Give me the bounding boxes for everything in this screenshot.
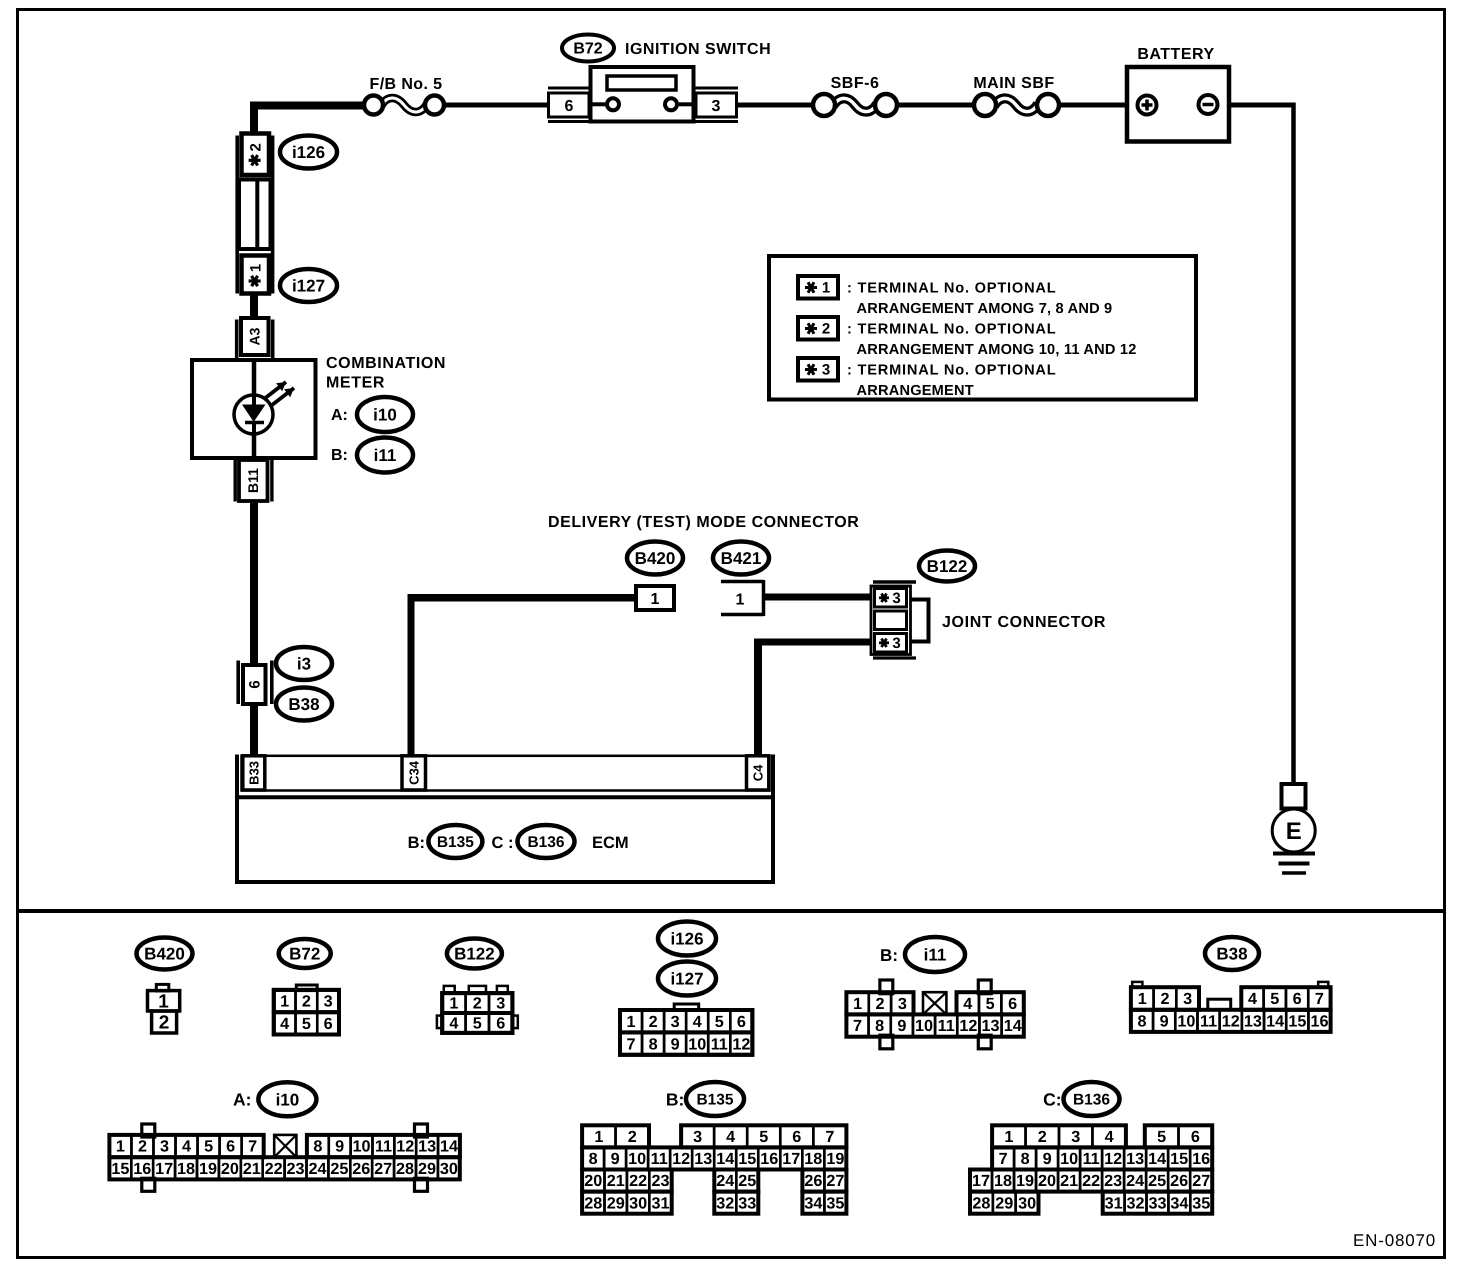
svg-text:17: 17 [155, 1160, 173, 1178]
svg-text:1: 1 [736, 592, 745, 609]
svg-text:i126: i126 [670, 929, 703, 948]
svg-text:27: 27 [1192, 1172, 1210, 1190]
svg-text:10: 10 [688, 1035, 706, 1053]
svg-text:6: 6 [1008, 995, 1017, 1013]
svg-text:EN-08070: EN-08070 [1353, 1231, 1436, 1250]
svg-text:5: 5 [473, 1015, 482, 1033]
svg-text:3: 3 [160, 1138, 169, 1156]
svg-text:3: 3 [693, 1128, 702, 1146]
svg-text:24: 24 [716, 1172, 734, 1190]
svg-text:1: 1 [1138, 990, 1147, 1008]
svg-text:4: 4 [963, 995, 972, 1013]
svg-text:15: 15 [111, 1160, 129, 1178]
svg-text:12: 12 [959, 1017, 977, 1035]
svg-text:24: 24 [1126, 1172, 1144, 1190]
svg-text:METER: METER [326, 375, 385, 392]
svg-text:20: 20 [221, 1160, 239, 1178]
svg-text:10: 10 [353, 1138, 371, 1156]
svg-text:18: 18 [994, 1172, 1012, 1190]
svg-text:6: 6 [496, 1015, 505, 1033]
svg-text:6: 6 [1293, 990, 1302, 1008]
svg-text:3: 3 [712, 98, 721, 115]
svg-text:1: 1 [449, 995, 458, 1013]
svg-text:2: 2 [1038, 1128, 1047, 1146]
svg-text:3: 3 [671, 1013, 680, 1031]
svg-text:13: 13 [694, 1150, 712, 1168]
svg-text:6: 6 [565, 98, 574, 115]
svg-text:16: 16 [1311, 1013, 1329, 1031]
svg-text:10: 10 [915, 1017, 933, 1035]
svg-text:33: 33 [1148, 1194, 1166, 1212]
svg-text:14: 14 [716, 1150, 734, 1168]
svg-text:27: 27 [826, 1172, 844, 1190]
svg-text:i11: i11 [924, 945, 947, 964]
svg-text:3: 3 [898, 995, 907, 1013]
svg-text:19: 19 [1016, 1172, 1034, 1190]
svg-text:ARRANGEMENT AMONG 10, 11 AND 1: ARRANGEMENT AMONG 10, 11 AND 12 [857, 342, 1137, 358]
svg-text:: TERMINAL No. OPTIONAL: : TERMINAL No. OPTIONAL [847, 281, 1056, 297]
svg-text:5: 5 [715, 1013, 724, 1031]
svg-text:i126: i126 [292, 143, 325, 162]
svg-text:DELIVERY (TEST) MODE CONNECTOR: DELIVERY (TEST) MODE CONNECTOR [548, 514, 859, 531]
svg-text:17: 17 [972, 1172, 990, 1190]
svg-text:5: 5 [986, 995, 995, 1013]
svg-text:7: 7 [248, 1138, 257, 1156]
svg-text:30: 30 [1018, 1194, 1036, 1212]
svg-text:8: 8 [589, 1150, 598, 1168]
svg-text:5: 5 [1157, 1128, 1166, 1146]
svg-text:4: 4 [1105, 1128, 1114, 1146]
svg-text:B135: B135 [696, 1091, 733, 1108]
svg-text:24: 24 [308, 1160, 326, 1178]
svg-text:29: 29 [607, 1194, 625, 1212]
svg-text:B136: B136 [1073, 1091, 1110, 1108]
svg-text:2: 2 [1160, 990, 1169, 1008]
svg-text:30: 30 [629, 1194, 647, 1212]
svg-text:B38: B38 [288, 695, 319, 714]
svg-text:8: 8 [1021, 1150, 1030, 1168]
svg-text:13: 13 [1244, 1013, 1262, 1031]
svg-text:9: 9 [1043, 1150, 1052, 1168]
svg-text:B136: B136 [527, 834, 564, 851]
svg-text:2: 2 [159, 1013, 170, 1034]
svg-text:A:: A: [331, 407, 348, 424]
svg-text:B135: B135 [437, 834, 474, 851]
svg-text:1: 1 [853, 995, 862, 1013]
svg-text:2: 2 [628, 1128, 637, 1146]
svg-text:31: 31 [1105, 1194, 1123, 1212]
svg-text:11: 11 [1083, 1150, 1100, 1168]
svg-text:B33: B33 [246, 761, 261, 785]
svg-text:9: 9 [611, 1150, 620, 1168]
svg-text:B11: B11 [245, 468, 261, 493]
svg-text:C :: C : [492, 834, 514, 852]
svg-text:6: 6 [226, 1138, 235, 1156]
svg-text:7: 7 [825, 1128, 834, 1146]
svg-text:6: 6 [1191, 1128, 1200, 1146]
svg-text:B:: B: [666, 1090, 684, 1110]
svg-text:8: 8 [649, 1035, 658, 1053]
svg-text:4: 4 [280, 1015, 289, 1033]
svg-text:MAIN SBF: MAIN SBF [973, 75, 1054, 92]
svg-text:22: 22 [629, 1172, 647, 1190]
svg-text:22: 22 [1082, 1172, 1100, 1190]
svg-text:1: 1 [822, 280, 830, 297]
svg-text:8: 8 [1137, 1013, 1146, 1031]
svg-text:1: 1 [247, 264, 264, 272]
svg-text:12: 12 [396, 1138, 414, 1156]
svg-text:23: 23 [1104, 1172, 1122, 1190]
svg-text:3: 3 [892, 635, 900, 652]
svg-text:9: 9 [897, 1017, 906, 1035]
svg-text:26: 26 [1170, 1172, 1188, 1190]
svg-text:7: 7 [853, 1017, 862, 1035]
svg-text:13: 13 [1126, 1150, 1144, 1168]
svg-text:i127: i127 [292, 276, 325, 295]
svg-text:1: 1 [594, 1128, 603, 1146]
svg-text:B421: B421 [721, 549, 762, 568]
svg-text:4: 4 [693, 1013, 702, 1031]
svg-text:2: 2 [138, 1138, 147, 1156]
svg-text:29: 29 [995, 1194, 1013, 1212]
svg-text:ARRANGEMENT: ARRANGEMENT [857, 383, 974, 399]
svg-text:2: 2 [822, 321, 830, 338]
svg-text:35: 35 [826, 1194, 844, 1212]
svg-text:B38: B38 [1216, 944, 1247, 963]
svg-text:B72: B72 [573, 41, 602, 58]
svg-text:B72: B72 [289, 944, 320, 963]
svg-text:11: 11 [375, 1138, 392, 1156]
svg-text:3: 3 [496, 995, 505, 1013]
svg-text:10: 10 [1177, 1013, 1195, 1031]
svg-text:3: 3 [822, 362, 830, 379]
svg-text:5: 5 [759, 1128, 768, 1146]
svg-text:B122: B122 [454, 944, 495, 963]
svg-text:3: 3 [1183, 990, 1192, 1008]
svg-text:11: 11 [938, 1017, 955, 1035]
svg-text:7: 7 [999, 1150, 1008, 1168]
svg-text:2: 2 [649, 1013, 658, 1031]
svg-text:F/B No. 5: F/B No. 5 [370, 76, 443, 93]
svg-text:i10: i10 [373, 405, 397, 424]
svg-text:B:: B: [880, 946, 898, 965]
svg-text:2: 2 [302, 993, 311, 1011]
svg-text:A3: A3 [247, 327, 263, 345]
svg-text:8: 8 [313, 1138, 322, 1156]
svg-text:4: 4 [182, 1138, 191, 1156]
svg-text:6: 6 [737, 1013, 746, 1031]
svg-text:25: 25 [738, 1172, 756, 1190]
svg-text:6: 6 [246, 680, 263, 688]
svg-text:22: 22 [265, 1160, 283, 1178]
svg-text:31: 31 [651, 1194, 669, 1212]
svg-text:26: 26 [352, 1160, 370, 1178]
svg-text:12: 12 [1222, 1013, 1240, 1031]
svg-text:SBF-6: SBF-6 [831, 75, 880, 92]
svg-text:6: 6 [792, 1128, 801, 1146]
svg-text:E: E [1286, 818, 1302, 845]
svg-text:21: 21 [607, 1172, 625, 1190]
svg-text:i11: i11 [374, 446, 397, 465]
svg-text:17: 17 [782, 1150, 800, 1168]
svg-text:12: 12 [732, 1035, 750, 1053]
svg-text:18: 18 [804, 1150, 822, 1168]
svg-text:14: 14 [440, 1138, 458, 1156]
svg-text:34: 34 [804, 1194, 822, 1212]
svg-text:B420: B420 [144, 944, 185, 963]
svg-text:10: 10 [1060, 1150, 1078, 1168]
svg-text:4: 4 [726, 1128, 735, 1146]
svg-text:4: 4 [1248, 990, 1257, 1008]
svg-text:28: 28 [972, 1194, 990, 1212]
svg-text:3: 3 [892, 590, 900, 607]
svg-text:15: 15 [1170, 1150, 1188, 1168]
svg-text:1: 1 [116, 1138, 125, 1156]
svg-text:30: 30 [440, 1160, 458, 1178]
svg-text:9: 9 [335, 1138, 344, 1156]
svg-text:23: 23 [287, 1160, 305, 1178]
svg-text:9: 9 [1160, 1013, 1169, 1031]
svg-text:23: 23 [651, 1172, 669, 1190]
svg-text:16: 16 [133, 1160, 151, 1178]
svg-text:1: 1 [1004, 1128, 1013, 1146]
svg-text:32: 32 [1127, 1194, 1145, 1212]
svg-text:28: 28 [396, 1160, 414, 1178]
svg-text:1: 1 [627, 1013, 636, 1031]
svg-text:25: 25 [330, 1160, 348, 1178]
svg-text:35: 35 [1192, 1194, 1210, 1212]
svg-text:i3: i3 [297, 654, 311, 673]
svg-text:10: 10 [628, 1150, 646, 1168]
svg-text:3: 3 [1071, 1128, 1080, 1146]
svg-text:14: 14 [1148, 1150, 1166, 1168]
svg-text:11: 11 [651, 1150, 668, 1168]
svg-text:1: 1 [651, 591, 660, 608]
svg-text:16: 16 [760, 1150, 778, 1168]
svg-text:19: 19 [826, 1150, 844, 1168]
svg-text:B:: B: [408, 834, 425, 852]
svg-text:13: 13 [982, 1017, 1000, 1035]
svg-text:: TERMINAL No. OPTIONAL: : TERMINAL No. OPTIONAL [847, 322, 1056, 338]
svg-text:1: 1 [280, 993, 289, 1011]
svg-text:ARRANGEMENT AMONG 7, 8 AND 9: ARRANGEMENT AMONG 7, 8 AND 9 [857, 301, 1113, 317]
svg-text:14: 14 [1004, 1017, 1022, 1035]
svg-text:i127: i127 [670, 969, 703, 988]
svg-text:21: 21 [1060, 1172, 1078, 1190]
svg-text:32: 32 [716, 1194, 734, 1212]
svg-text:B420: B420 [635, 549, 676, 568]
svg-text:11: 11 [711, 1035, 728, 1053]
svg-text:C4: C4 [750, 764, 765, 781]
svg-text:ECM: ECM [592, 834, 629, 852]
svg-text:9: 9 [671, 1035, 680, 1053]
svg-text:18: 18 [177, 1160, 195, 1178]
svg-text:5: 5 [1270, 990, 1279, 1008]
svg-text:14: 14 [1266, 1013, 1284, 1031]
svg-text:4: 4 [449, 1015, 458, 1033]
svg-text:34: 34 [1170, 1194, 1188, 1212]
svg-text:11: 11 [1200, 1013, 1217, 1031]
svg-text:19: 19 [199, 1160, 217, 1178]
svg-text:C:: C: [1043, 1090, 1061, 1110]
svg-text:16: 16 [1192, 1150, 1210, 1168]
svg-text:13: 13 [418, 1138, 436, 1156]
svg-text:20: 20 [1038, 1172, 1056, 1190]
svg-text:7: 7 [1315, 990, 1324, 1008]
svg-text:8: 8 [875, 1017, 884, 1035]
svg-text:15: 15 [1288, 1013, 1306, 1031]
svg-text:27: 27 [374, 1160, 392, 1178]
svg-text:6: 6 [324, 1015, 333, 1033]
svg-text:7: 7 [627, 1035, 636, 1053]
svg-text:28: 28 [584, 1194, 602, 1212]
svg-text:5: 5 [204, 1138, 213, 1156]
svg-text:20: 20 [584, 1172, 602, 1190]
svg-text:3: 3 [324, 993, 333, 1011]
svg-text:26: 26 [804, 1172, 822, 1190]
svg-text:15: 15 [738, 1150, 756, 1168]
svg-text:2: 2 [875, 995, 884, 1013]
svg-text:12: 12 [1104, 1150, 1122, 1168]
svg-text:B122: B122 [927, 557, 968, 576]
svg-text:A:: A: [233, 1090, 251, 1110]
svg-text:25: 25 [1148, 1172, 1166, 1190]
svg-text:2: 2 [247, 143, 264, 151]
svg-text:29: 29 [418, 1160, 436, 1178]
svg-text:12: 12 [672, 1150, 690, 1168]
svg-text:COMBINATION: COMBINATION [326, 355, 446, 372]
svg-text:21: 21 [243, 1160, 261, 1178]
svg-text:: TERMINAL No. OPTIONAL: : TERMINAL No. OPTIONAL [847, 363, 1056, 379]
svg-text:i10: i10 [276, 1090, 300, 1109]
svg-text:5: 5 [302, 1015, 311, 1033]
svg-text:JOINT CONNECTOR: JOINT CONNECTOR [942, 614, 1106, 631]
svg-text:C34: C34 [406, 760, 421, 785]
svg-text:IGNITION SWITCH: IGNITION SWITCH [625, 41, 771, 58]
svg-text:BATTERY: BATTERY [1137, 46, 1214, 63]
svg-text:2: 2 [473, 995, 482, 1013]
svg-text:33: 33 [738, 1194, 756, 1212]
svg-text:B:: B: [331, 447, 348, 464]
